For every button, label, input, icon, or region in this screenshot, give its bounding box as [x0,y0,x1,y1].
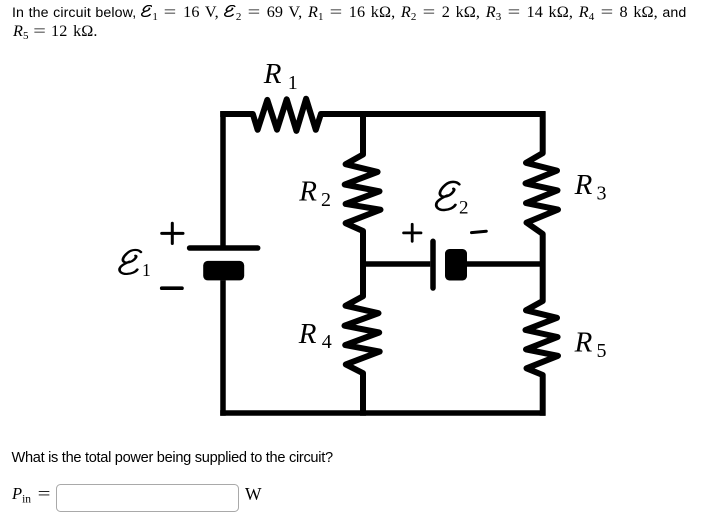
svg-text:1: 1 [142,260,151,280]
minus sign for E2 [472,231,487,232]
unit W [245,484,262,505]
wire + resistors R2, R4: middle branch [345,111,381,416]
svg-text:R: R [574,327,593,359]
plus sign for E2 [404,224,421,241]
wire: middle horizontal, right of battery E2 [467,261,546,267]
wire + resistors R3, R5: right branch [526,111,559,416]
problem statement paragraph [12,4,686,26]
label E2 script glyph [436,182,459,210]
label E1 script glyph [120,250,141,274]
svg-text:R: R [574,169,593,201]
battery E2 short plate (-) [445,249,467,281]
answer row: P_in = [input] W [12,484,51,506]
wire: bottom side [220,410,545,416]
svg-text:5: 5 [597,340,607,362]
minus sign for E1 [162,286,182,290]
svg-text:R: R [263,58,282,90]
svg-text:R: R [298,318,317,350]
input box [56,484,239,513]
svg-text:1: 1 [288,72,298,94]
wire: top side with resistor R1 zigzag [220,99,545,131]
svg-text:R: R [298,176,317,208]
battery E2 long plate (+) [430,241,436,288]
svg-text:2: 2 [321,189,331,211]
svg-text:2: 2 [459,198,469,219]
wire: left branch upper (to battery E1) [220,111,226,245]
wire: left branch lower (from battery E1 to bottom) [220,280,226,416]
svg-text:3: 3 [597,182,607,204]
wire: middle horizontal, left of battery E2 [360,261,430,267]
svg-text:4: 4 [322,331,332,353]
question text [12,450,333,466]
battery E1 short plate (-) [203,261,244,281]
plus sign for E1 [162,223,183,243]
battery E1 long plate (+) [190,245,258,251]
